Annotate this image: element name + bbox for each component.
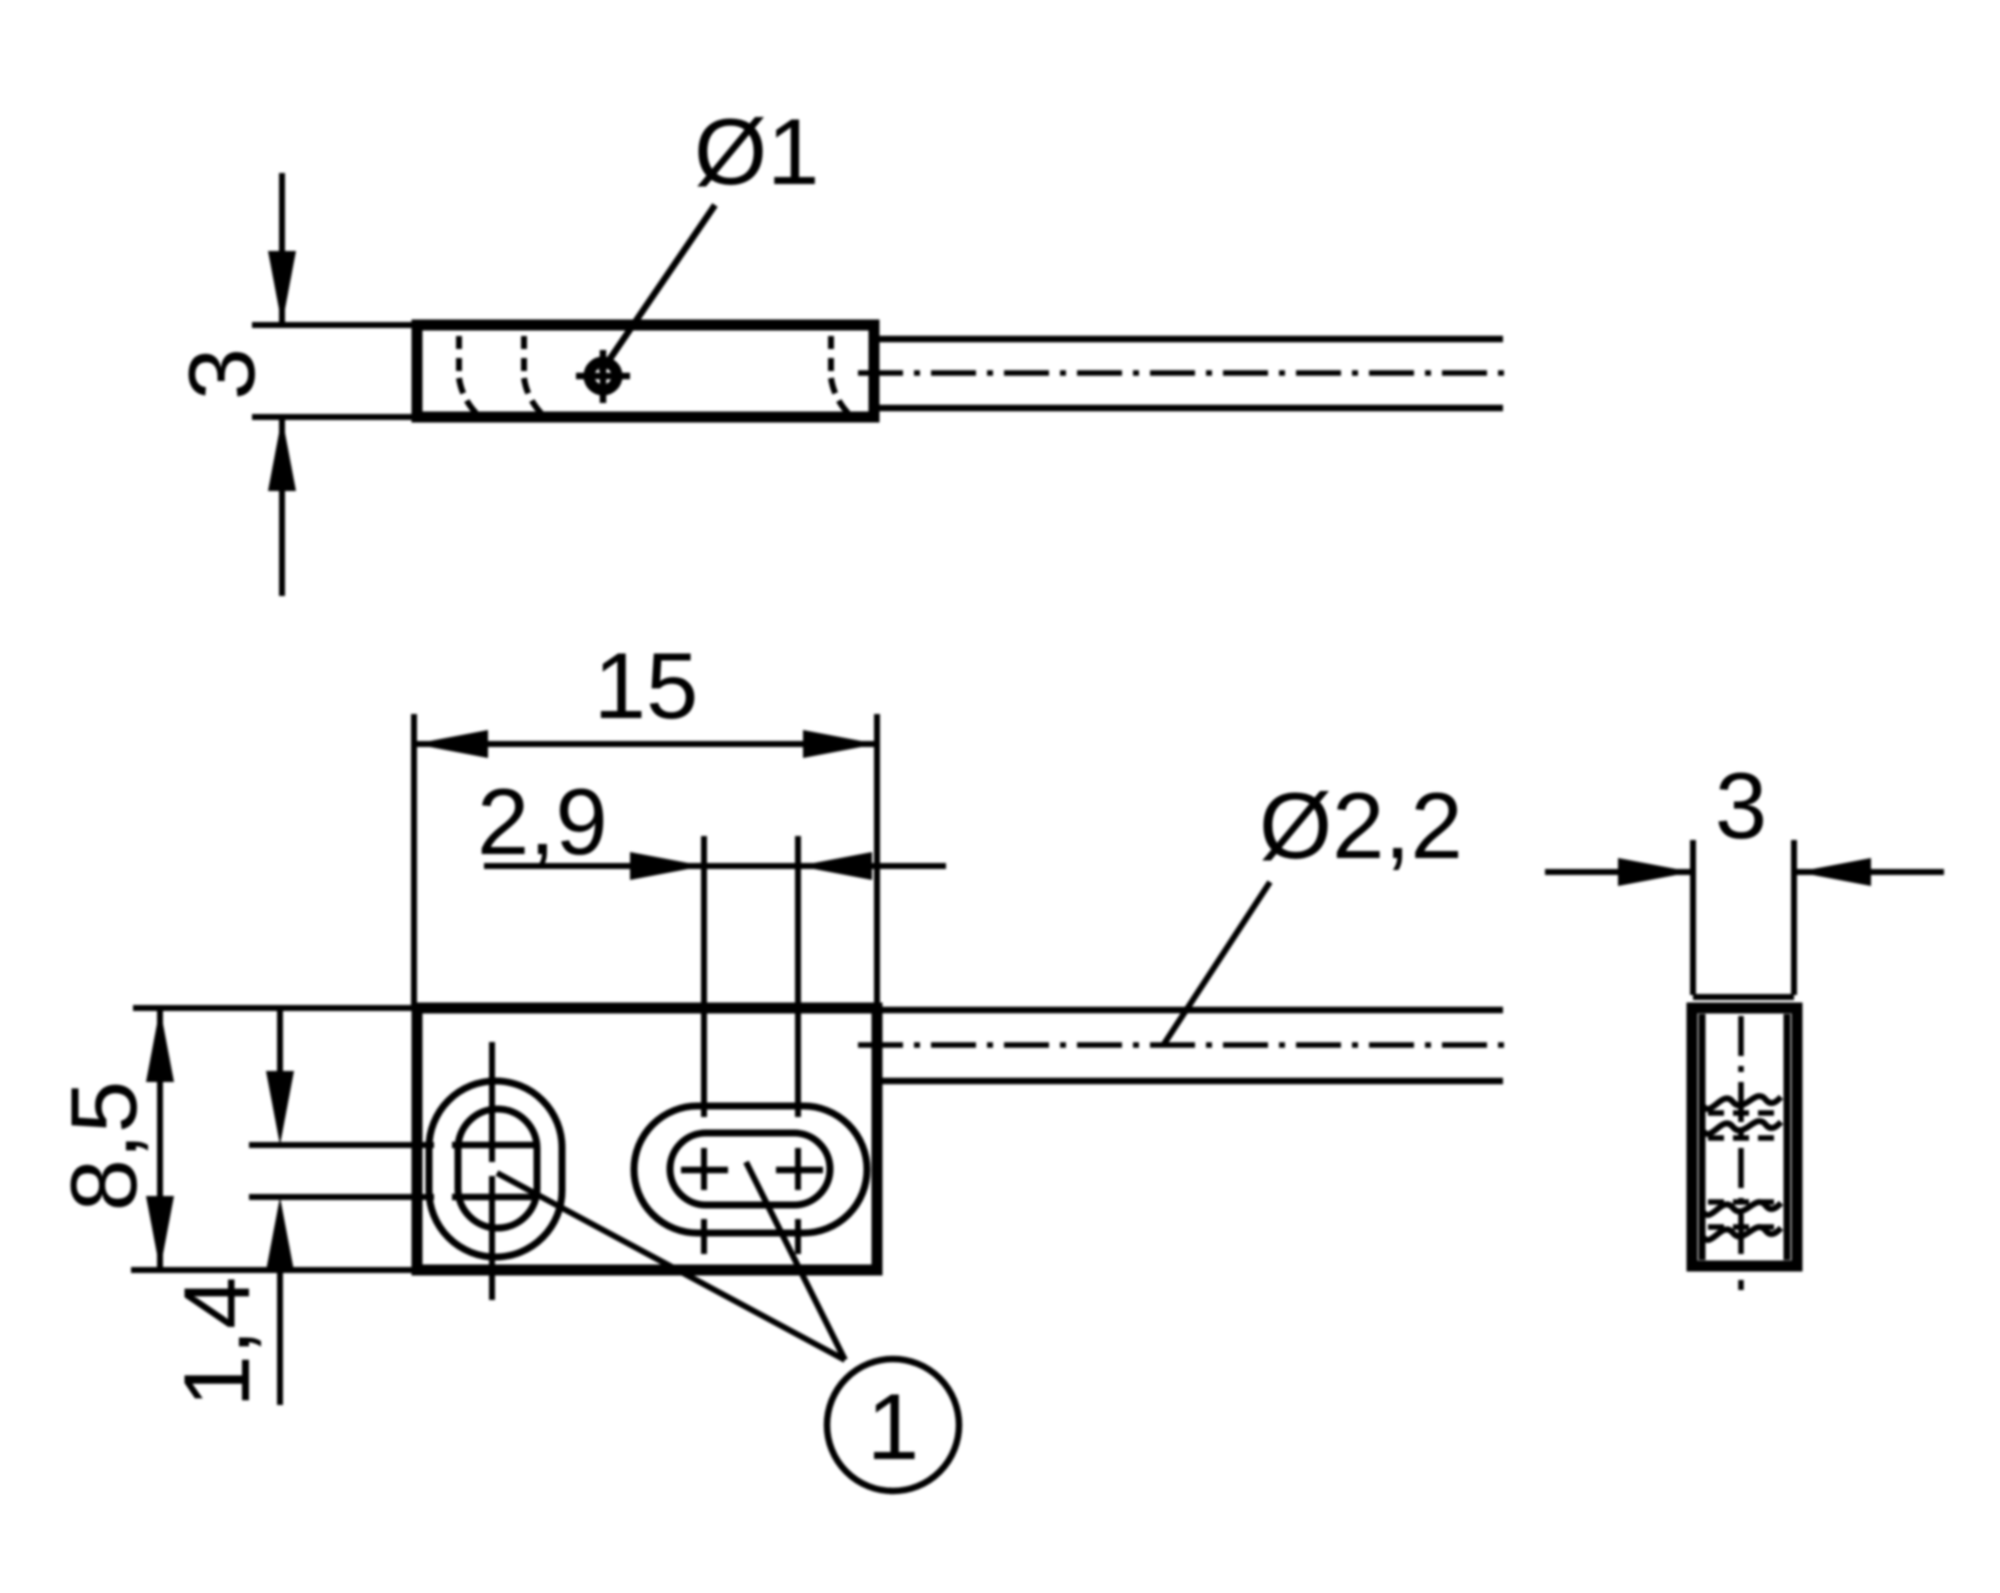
svg-text:Ø1: Ø1 [694,99,819,204]
svg-text:15: 15 [594,633,699,738]
svg-text:2,9: 2,9 [477,769,608,874]
svg-text:8,5: 8,5 [51,1081,156,1212]
svg-text:1,4: 1,4 [164,1277,269,1408]
svg-text:3: 3 [169,348,274,400]
svg-text:1: 1 [867,1374,919,1479]
svg-text:3: 3 [1715,753,1767,858]
svg-text:Ø2,2: Ø2,2 [1259,773,1463,878]
